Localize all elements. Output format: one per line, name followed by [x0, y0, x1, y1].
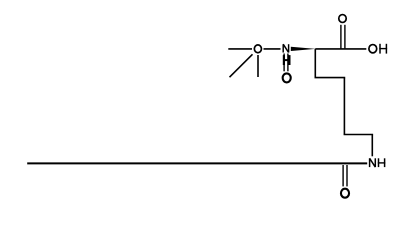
atom O1 ether oxygen — [254, 45, 261, 53]
double bond N1=O2 line b — [287, 54, 289, 72]
chain bond Cbeta-Cgamma — [315, 77, 346, 79]
atom O2 carbamate oxygen — [283, 73, 291, 82]
double bond C=O3 line a — [340, 25, 342, 49]
double bond C=O3 line b — [344, 25, 346, 49]
atom O3 carbonyl oxygen — [339, 15, 346, 23]
atom group OH carboxyl — [369, 44, 387, 54]
chain bond Cgamma-Cdelta — [343, 78, 345, 135]
atom H1 on N1 — [283, 55, 290, 65]
bond Calpha to carboxyl OH — [315, 48, 366, 50]
bond O1-N1 — [264, 48, 281, 50]
methyl bond CH3-vertical of tert-butyl — [257, 55, 259, 77]
chain bond Cepsilon-N2 — [371, 135, 373, 157]
methyl bond CH3-diagonal of tert-butyl — [230, 54, 253, 77]
atom N1 carbamate nitrogen — [283, 44, 288, 52]
stereo wedge N1 to Calpha — [291, 47, 316, 51]
double bond N1=O2 line a — [283, 54, 285, 72]
double bond C=O4 line a — [342, 165, 344, 186]
methyl bond CH3-left of tert-butyl — [228, 48, 252, 50]
chain bond Calpha-Cbeta — [314, 49, 316, 78]
long alkyl chain bond to amide carbonyl — [27, 162, 367, 164]
atom group NH amide — [370, 158, 386, 167]
chain bond Cdelta-Cepsilon — [344, 134, 374, 136]
atom O4 amide oxygen — [341, 189, 349, 198]
double bond C=O4 line b — [346, 165, 348, 186]
